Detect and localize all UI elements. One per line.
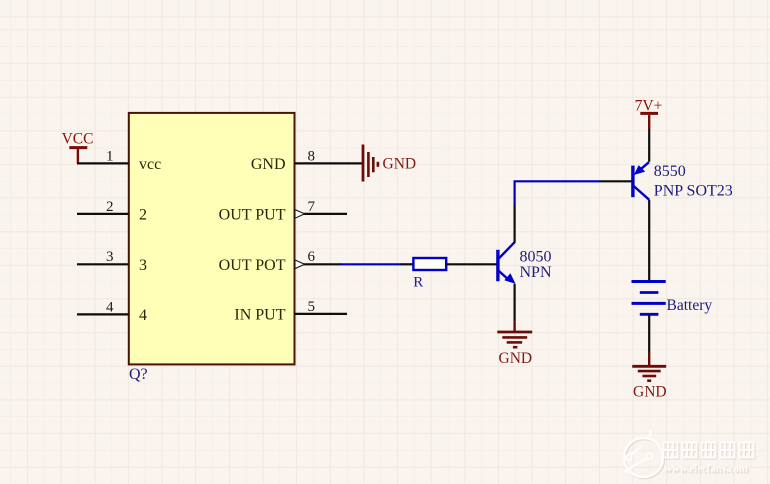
wire resistor to Q1 base (446, 263, 496, 265)
svg-text:GND: GND (633, 383, 667, 400)
wire pin6 to resistor (339, 263, 413, 265)
battery B1 (632, 282, 713, 315)
ground symbol at pin 8 (363, 145, 416, 182)
pin 2 wire (77, 199, 147, 224)
svg-text:Battery: Battery (667, 297, 713, 314)
pin 4 wire (77, 299, 147, 324)
svg-text:4: 4 (139, 307, 147, 324)
IC chip Q? body (129, 113, 295, 365)
power symbol VCC (62, 131, 94, 164)
pin 1 wire (77, 148, 161, 173)
svg-text:GND: GND (251, 156, 286, 173)
transistor Q1 8050 NPN (498, 242, 552, 284)
resistor R (413, 258, 446, 290)
svg-text:3: 3 (106, 249, 114, 265)
svg-text:1: 1 (106, 148, 114, 164)
svg-text:5: 5 (308, 299, 316, 315)
svg-text:GND: GND (383, 155, 417, 172)
svg-text:www.elecfans.com: www.elecfans.com (664, 462, 748, 474)
svg-text:OUT POT: OUT POT (219, 257, 286, 274)
svg-text:6: 6 (308, 249, 316, 265)
svg-text:4: 4 (106, 299, 114, 315)
svg-text:Q?: Q? (129, 366, 148, 383)
svg-text:GND: GND (499, 350, 533, 367)
pin 5 wire IN PUT (234, 299, 347, 324)
svg-text:8550: 8550 (654, 163, 686, 180)
Q2 collector wire down to battery (648, 200, 650, 281)
ground symbol below battery (632, 366, 666, 400)
ground symbol below Q1 (497, 332, 532, 367)
pin 7 wire OUT PUT (219, 199, 347, 224)
power symbol 7V+ (635, 98, 663, 162)
svg-text:R: R (413, 274, 423, 290)
svg-text:IN PUT: IN PUT (234, 307, 285, 324)
pin 6 wire OUT POT (219, 249, 340, 274)
svg-text:2: 2 (139, 207, 147, 224)
Q1 emitter wire down (513, 284, 515, 331)
svg-text:VCC: VCC (62, 131, 94, 148)
Q1 collector wire up to Q2 base (515, 181, 632, 243)
wire battery to ground (648, 314, 650, 365)
svg-text:8: 8 (308, 148, 316, 164)
watermark text (664, 443, 755, 477)
watermark logo (624, 430, 664, 479)
svg-text:OUT PUT: OUT PUT (219, 207, 286, 224)
transistor Q2 8550 PNP (633, 162, 733, 200)
svg-text:2: 2 (106, 199, 114, 215)
pin 3 wire (77, 249, 147, 274)
designator Q? (129, 366, 148, 383)
svg-text:3: 3 (139, 257, 147, 274)
svg-text:vcc: vcc (139, 156, 161, 173)
svg-text:7: 7 (308, 199, 316, 215)
pin 8 wire GND (251, 148, 363, 173)
svg-text:8050: 8050 (520, 248, 552, 265)
svg-text:NPN: NPN (520, 264, 552, 281)
svg-text:PNP SOT23: PNP SOT23 (654, 182, 733, 199)
